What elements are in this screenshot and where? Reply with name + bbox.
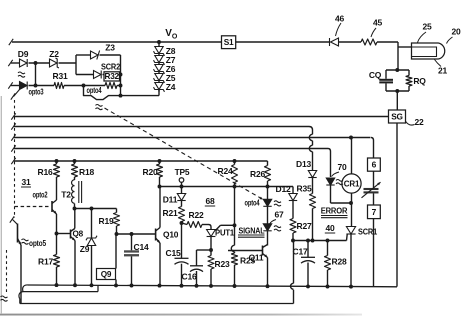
svg-text:C17: C17 bbox=[293, 247, 308, 257]
svg-text:SCR2: SCR2 bbox=[101, 62, 120, 72]
svg-text:D11: D11 bbox=[163, 195, 178, 205]
svg-text:68: 68 bbox=[205, 196, 215, 206]
svg-text:opto4: opto4 bbox=[87, 85, 102, 95]
svg-text:RQ: RQ bbox=[413, 76, 426, 86]
svg-text:67: 67 bbox=[274, 210, 284, 220]
svg-text:Z4: Z4 bbox=[166, 82, 176, 92]
svg-text:R32: R32 bbox=[104, 72, 119, 81]
svg-text:R17: R17 bbox=[38, 257, 53, 267]
svg-text:ERROR: ERROR bbox=[321, 206, 348, 216]
svg-text:R27: R27 bbox=[297, 221, 312, 231]
svg-text:R21: R21 bbox=[163, 208, 178, 218]
svg-text:CR1: CR1 bbox=[344, 180, 360, 189]
svg-text:6: 6 bbox=[372, 160, 377, 170]
svg-text:Q8: Q8 bbox=[73, 230, 84, 239]
svg-text:31: 31 bbox=[21, 177, 31, 187]
svg-text:D12: D12 bbox=[276, 184, 291, 194]
svg-text:Z2: Z2 bbox=[49, 49, 59, 59]
svg-text:C16: C16 bbox=[182, 272, 197, 282]
svg-text:7: 7 bbox=[372, 207, 377, 217]
svg-text:D13: D13 bbox=[296, 159, 311, 169]
svg-text:21: 21 bbox=[438, 66, 448, 76]
svg-text:70: 70 bbox=[337, 162, 347, 172]
svg-text:C15: C15 bbox=[166, 248, 181, 258]
svg-text:R24: R24 bbox=[218, 166, 233, 176]
svg-text:45: 45 bbox=[373, 18, 383, 28]
svg-text:C14: C14 bbox=[134, 242, 149, 252]
svg-text:Z3: Z3 bbox=[105, 43, 115, 53]
svg-text:R18: R18 bbox=[79, 167, 94, 177]
svg-text:opto2: opto2 bbox=[33, 190, 48, 200]
svg-text:R28: R28 bbox=[332, 257, 347, 267]
svg-text:R31: R31 bbox=[53, 71, 68, 81]
svg-text:Q10: Q10 bbox=[163, 230, 179, 240]
svg-text:22: 22 bbox=[414, 117, 424, 127]
svg-text:46: 46 bbox=[335, 14, 345, 24]
svg-text:R16: R16 bbox=[38, 167, 53, 177]
svg-text:Q9: Q9 bbox=[101, 270, 112, 279]
svg-text:opto3: opto3 bbox=[29, 87, 44, 97]
svg-text:SIGNAL: SIGNAL bbox=[239, 226, 265, 236]
svg-text:TP5: TP5 bbox=[175, 167, 190, 177]
svg-text:R26: R26 bbox=[250, 169, 265, 179]
svg-text:PUT1: PUT1 bbox=[215, 228, 234, 238]
svg-text:D9: D9 bbox=[18, 49, 29, 59]
svg-text:T2: T2 bbox=[61, 190, 71, 200]
svg-text:opto4: opto4 bbox=[245, 198, 260, 208]
svg-text:40: 40 bbox=[325, 223, 335, 233]
svg-text:R22: R22 bbox=[189, 210, 204, 220]
svg-text:20: 20 bbox=[451, 27, 461, 37]
svg-text:R23: R23 bbox=[215, 259, 230, 269]
svg-text:R19: R19 bbox=[99, 216, 114, 226]
svg-text:R20: R20 bbox=[143, 167, 158, 177]
svg-text:Q11: Q11 bbox=[249, 253, 264, 263]
svg-text:S1: S1 bbox=[224, 37, 234, 47]
svg-text:R35: R35 bbox=[297, 184, 312, 194]
svg-text:25: 25 bbox=[422, 22, 432, 32]
svg-text:opto5: opto5 bbox=[29, 238, 46, 248]
svg-text:SG: SG bbox=[391, 112, 403, 122]
svg-text:Z9: Z9 bbox=[80, 244, 90, 254]
svg-text:SCR1: SCR1 bbox=[358, 227, 377, 237]
svg-text:O: O bbox=[172, 34, 178, 41]
svg-text:CQ: CQ bbox=[369, 70, 382, 80]
